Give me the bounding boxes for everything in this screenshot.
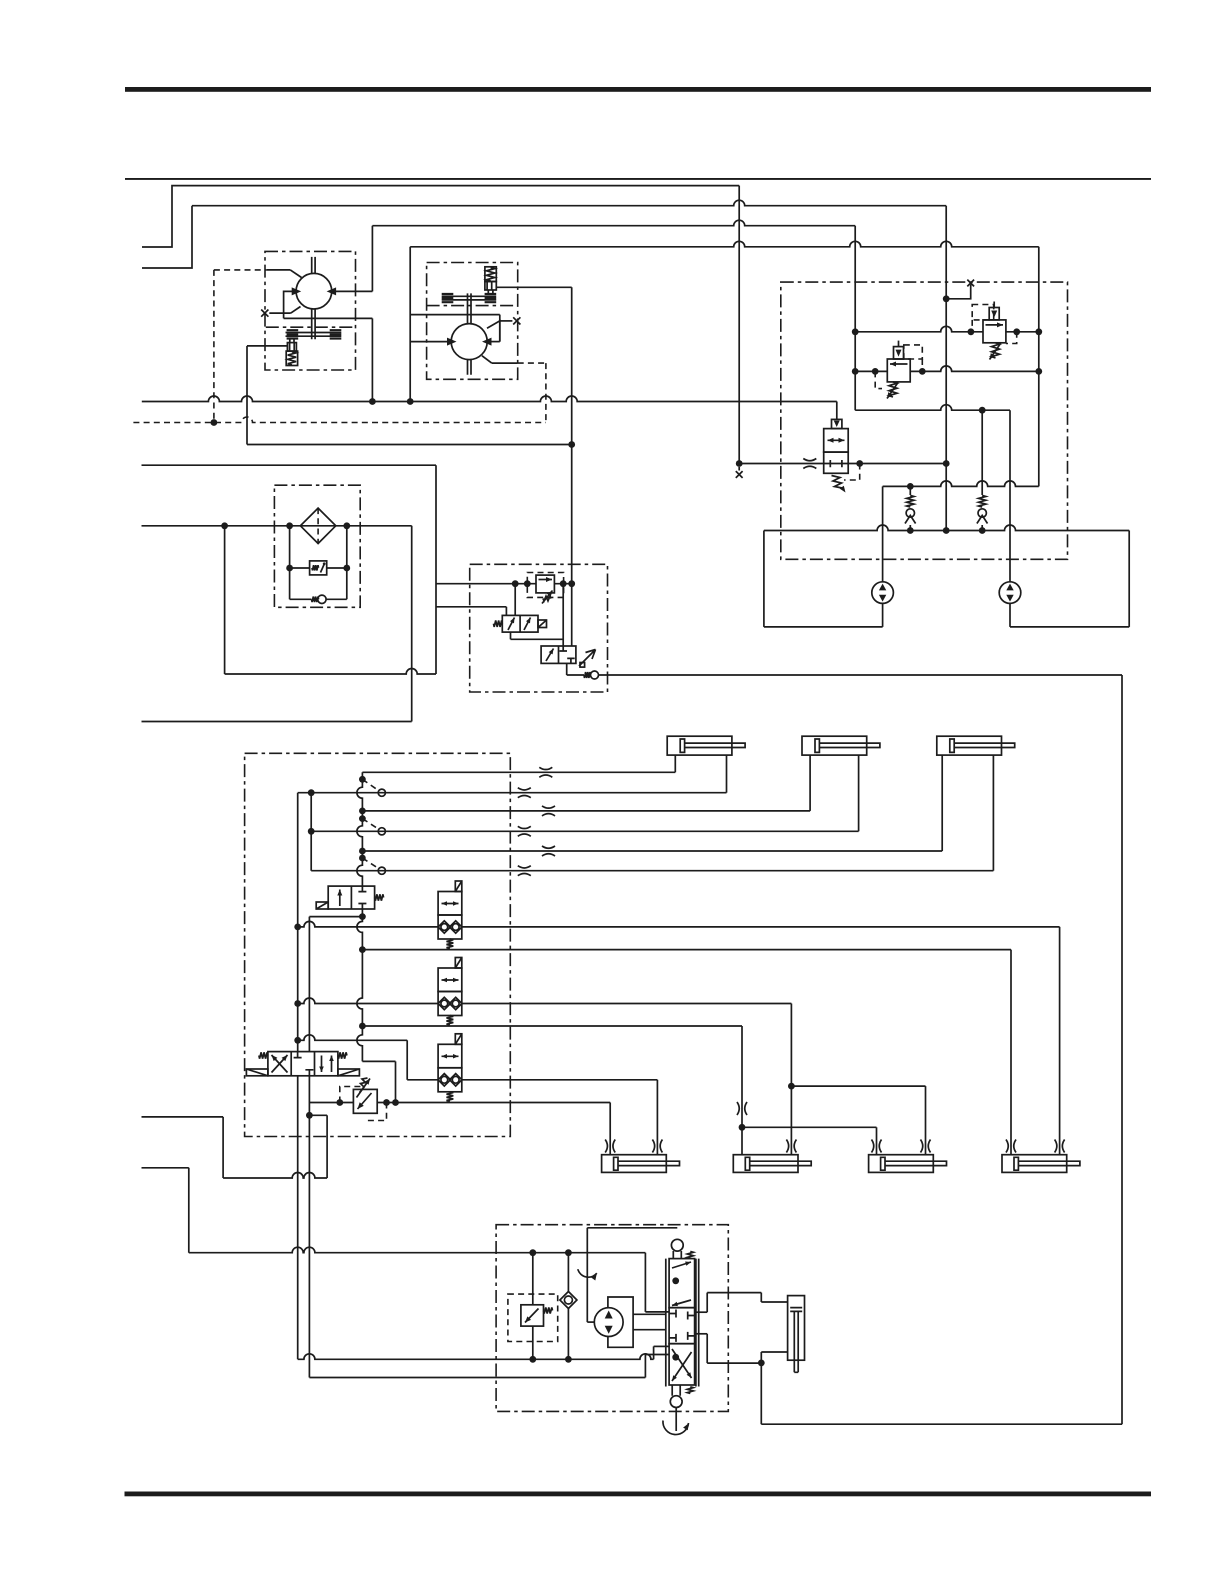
wire motor loop left (763, 531, 765, 627)
filter F1 enclosure (dash-dot) (274, 485, 360, 607)
wire pilot valve feed drop (836, 402, 838, 420)
pump P2 case drain (dashed) (482, 356, 492, 363)
pump P2 compensator link (488, 290, 493, 294)
throttle cyl1 cap (605, 1140, 615, 1153)
relief valve RV2 arrow (986, 324, 1004, 326)
unload valve UV arrows (508, 618, 515, 631)
port relief PR spring adjust (357, 1079, 371, 1098)
steering spool spring top (687, 1252, 693, 1259)
wire P2 discharge (487, 341, 500, 343)
steering relief SR body (521, 1305, 544, 1326)
pump P1 compensator link (290, 339, 294, 342)
relief valve RV1 body (887, 359, 910, 382)
main valve MV center blocked (294, 1052, 314, 1076)
main valve MV spring right (338, 1052, 347, 1058)
node V1 line7 (294, 924, 301, 931)
steering check valve SC (567, 1253, 569, 1360)
wire line C drop right (854, 226, 856, 411)
wire steering supply riser (760, 1363, 762, 1424)
relief valve RV1 spring (889, 382, 897, 397)
unload valve UV body (502, 615, 538, 632)
wire line10 (cyl2 cap) (362, 1025, 742, 1027)
filter F1 element (diamond) (300, 508, 335, 543)
cylinder CYL-3 (869, 1155, 934, 1173)
node line B / pilot-x branch (943, 295, 950, 302)
wire P2 suction arrow line (410, 341, 452, 343)
pump P1 case drain (dashed) (214, 269, 267, 271)
unload valve UV solenoid (538, 620, 547, 628)
throttle cyl4 rod (1055, 1140, 1065, 1153)
wire relief rail upper (855, 326, 983, 332)
wire load-sense link (247, 444, 572, 446)
charge valve CH body lower (824, 452, 849, 473)
charge valve CH arrows (828, 439, 845, 441)
wire cyl-B cap drop (809, 755, 811, 811)
steering relief SR arrow (525, 1309, 539, 1323)
orifice check 1 (dashed feed) (362, 779, 377, 790)
unload valve UV spring (494, 621, 503, 627)
steering wheel knob top (673, 1251, 681, 1259)
wire work rail 2 (V2) (310, 793, 312, 871)
reducing valve RV body (536, 575, 554, 593)
wire tank bus (142, 396, 837, 402)
node riser diag 2 (359, 815, 366, 822)
pump P2 swash plate (442, 296, 497, 300)
throttle cyl-B rod (518, 826, 531, 836)
wire cyl-B rod line (311, 830, 858, 832)
check valve CV2 symbol (975, 495, 990, 525)
pump P2 left port arrow (447, 338, 457, 346)
node P2 on bus (407, 398, 414, 405)
charge valve CH body upper (824, 429, 849, 453)
wire unload valve out (510, 632, 512, 639)
node manifold CV1 (907, 527, 914, 534)
steering spool bottom section (669, 1344, 695, 1385)
wire branch to cyl3 cap (742, 1126, 877, 1128)
steering check symbol (560, 1292, 577, 1309)
plugged pilot port X on block edge (967, 280, 974, 287)
node V1 line9 (294, 1000, 301, 1007)
node riser cyl2-left line (359, 1023, 366, 1030)
wire line11 (298, 1035, 408, 1041)
wire branch at relief (309, 1114, 327, 1116)
node riser branch to V3 (359, 913, 366, 920)
node filter bypass right (343, 522, 350, 529)
node manifold CV2 (979, 527, 986, 534)
wire line B drop (right riser) (945, 206, 947, 531)
pump P2 circle (451, 324, 487, 360)
node P1 on bus (369, 398, 376, 405)
wire feed riser (P line) (357, 772, 363, 886)
cylinder CYL-C (top right) (937, 736, 1002, 755)
wire neutral rail V3 (308, 917, 310, 1052)
reducing valve RV dashed pilot box (527, 573, 563, 598)
pilot check spring and ball (584, 672, 591, 678)
wire pilot-x branch (946, 285, 971, 299)
wire relief PR inlet (309, 1102, 353, 1104)
wire steering line 3 (309, 1377, 645, 1379)
relief valve RV2 spring (992, 343, 1000, 358)
wire P2 compensator out (496, 286, 571, 288)
node cyl2 cap branch (739, 1124, 746, 1131)
node V2 mid (308, 828, 315, 835)
wire filter out drop (411, 526, 413, 722)
main valve MV spring left (259, 1052, 268, 1058)
node case drain junction (211, 419, 218, 426)
wire cyl-A rod line (298, 792, 727, 794)
steering shaft bottom (675, 1408, 677, 1432)
node riser diag 1 (359, 776, 366, 783)
wire cyl-C rod line (311, 870, 993, 872)
node manifold line B (943, 527, 950, 534)
wire filter bypass left leg (289, 526, 291, 600)
wire steering line 1 (189, 1247, 646, 1252)
page top rule (thick) (125, 87, 1151, 92)
check valve CV1 symbol (903, 495, 918, 525)
node V1 line11 (294, 1037, 301, 1044)
wire spool right lower (695, 1333, 708, 1335)
wire tank return bottom (left margin) (142, 721, 412, 723)
node indicator left (286, 565, 293, 572)
lock valve LV3 (cyl1) (438, 1044, 462, 1068)
steering spool spring bottom (687, 1387, 693, 1394)
cylinder CYL-2 (733, 1155, 798, 1173)
throttle cyl-C cap (542, 846, 555, 856)
pilot operated valve PV arrow (546, 649, 554, 662)
wire P1 lower line to bus (284, 317, 373, 319)
node charge outlet on line B (943, 460, 950, 467)
wire motor manifold (764, 525, 1129, 530)
steering cylinder body (788, 1296, 805, 1361)
node relief rail lower left (852, 368, 859, 375)
wire case drain rail (dashed) (133, 417, 546, 423)
lock valve LV1 (cyl4) (438, 892, 462, 916)
wire branch to cyl3 rod (791, 1085, 925, 1087)
wire line2 to valve (653, 1346, 655, 1359)
cylinder CYL-B (top middle) (802, 736, 867, 755)
throttle cyl2 rod (786, 1140, 796, 1153)
control block enclosure (dash-dot) (470, 564, 608, 692)
wire unload valve top feed (514, 584, 516, 616)
node riser cyl-C cap (359, 848, 366, 855)
wire P1 control X line (269, 312, 291, 314)
wire P1 compensator feed (247, 345, 287, 347)
throttle on charge inlet (803, 459, 816, 469)
wire riser elbow to relief (362, 1060, 395, 1062)
port relief PR arrow (358, 1093, 372, 1109)
gerotor metering circle (594, 1308, 623, 1337)
throttle cyl3 rod (921, 1140, 931, 1153)
main valve MV solenoid right (338, 1069, 360, 1076)
steering spool mid section (669, 1308, 695, 1344)
reducing valve RV adjust arrow (542, 591, 553, 604)
port relief PR body (353, 1089, 377, 1113)
reducing valve RV arrow (539, 579, 553, 581)
lock valve LV2 (cyl2) (438, 968, 462, 992)
main valve MV crossed arrows (272, 1055, 288, 1073)
wire relief PR out (377, 1102, 395, 1104)
wire steering upper riser (326, 1115, 328, 1178)
wire steering upper run (223, 1173, 327, 1179)
charge valve CH spring (832, 476, 843, 489)
wire cyl-C rod drop (992, 755, 994, 871)
page bottom rule (thick) (125, 1492, 1152, 1497)
page header rule (thin) (125, 178, 1151, 180)
pump P1 swash plate (286, 333, 342, 337)
steering relief SR out (532, 1326, 534, 1359)
wire P1 compensator drop (246, 346, 248, 445)
pump P1 right port arrow (327, 287, 337, 295)
pump P2 compensator spring box (485, 267, 496, 282)
travel motor M2 (right) (999, 582, 1021, 604)
wire cyl-B rod drop (858, 755, 860, 831)
wire line13 (cyl1 cap) (396, 1102, 611, 1104)
node spool top (672, 1277, 679, 1284)
wire steer cylinder bottom port (761, 1351, 787, 1353)
node V2 top (308, 789, 315, 796)
wire line1 to valve (644, 1253, 646, 1312)
wire port B step (left margin) (142, 206, 192, 268)
wire port A drop to pilot-valve inlet (738, 186, 740, 467)
wire line9 (cyl2 rod) (298, 998, 438, 1004)
wire port A down (297, 1076, 299, 1360)
wire line C drop to right motor (1009, 410, 1011, 582)
steering spool rails (666, 1259, 699, 1387)
main block enclosure (dash-dot) (245, 753, 511, 1136)
filter bypass check valve (290, 598, 312, 600)
wire cyl-A rod drop (726, 755, 728, 793)
wire steering port upper (left margin) (142, 1116, 224, 1118)
node riser cyl4-left line (359, 946, 366, 953)
wire filter bypass right leg (346, 526, 348, 600)
wire cyl-A cap line (362, 771, 675, 773)
node A junction on pilot inlet line (736, 460, 743, 467)
clogging indicator box (290, 567, 310, 569)
wire line8 (cyl4 cap) (362, 949, 1011, 951)
wire LS line into block (436, 583, 536, 585)
node PR out 2 (392, 1099, 399, 1106)
wire cyl4 cap drop (1010, 950, 1012, 1155)
gerotor rotation arrow (578, 1269, 597, 1277)
steering relief SR feed (532, 1253, 534, 1305)
steering rotation arrow bottom (663, 1421, 689, 1435)
node LS branch 2 (560, 580, 567, 587)
node filter bypass left (286, 522, 293, 529)
orifice check 3 (dashed feed) (362, 858, 377, 868)
wire gerotor links (633, 1313, 666, 1315)
wire P2 discharge riser (409, 247, 411, 402)
wire line B top run (192, 200, 946, 205)
pump P2 inner section line (dash-dot) (427, 305, 518, 307)
wire cyl2 cap drop (741, 1026, 743, 1155)
node LS dashed-box edge (524, 580, 531, 587)
node riser diag 3 (359, 855, 366, 862)
wire port B down (308, 1076, 310, 1378)
wire compensator drop to control block (571, 287, 573, 583)
wire charge valve inlet (739, 463, 824, 465)
node line1 check branch (565, 1249, 572, 1256)
main valve MV body (268, 1052, 338, 1076)
pump P1 top-left port (267, 269, 291, 271)
wire P2 control X line (500, 320, 513, 322)
throttle cyl1 rod (652, 1140, 662, 1153)
wire LS line out of RV (554, 583, 571, 585)
wire riser lower (357, 917, 363, 1062)
relief valve RV2 pilot box (dashed) (972, 305, 994, 320)
wire second stage feed B (571, 584, 573, 646)
pump P1 left port arrow (292, 287, 302, 295)
node RV1 on line D (1035, 368, 1042, 375)
node filter drain branch (221, 522, 228, 529)
node PR out 1 (383, 1099, 390, 1106)
steering wheel knob bottom (672, 1385, 680, 1396)
pilot operated valve PV body (541, 646, 576, 663)
pump P1 circle (296, 273, 332, 309)
pump P2 right port arrow (482, 338, 492, 346)
node CV1 top (907, 483, 914, 490)
relief valve RV2 body (983, 320, 1006, 343)
node steer cylinder junction (758, 1360, 765, 1367)
pilot operated valve PV lever (579, 650, 596, 667)
wire steering line 2 (298, 1354, 654, 1359)
orifice check 2 (dashed feed) (362, 819, 377, 829)
steering relief SR pilot box (dashed) (508, 1294, 558, 1341)
wire long line to steering (right) (599, 674, 1123, 676)
node spool bottom (672, 1354, 679, 1361)
wire line C lower run (855, 405, 1010, 410)
node relief2 left (968, 328, 975, 335)
cylinder CYL-1 (602, 1155, 667, 1173)
node RV2 out (1013, 328, 1020, 335)
gerotor loop top (587, 1227, 677, 1229)
pump P2 enclosure (dash-dot) (427, 263, 518, 380)
wire line D drop right (1038, 247, 1040, 487)
pump P1 compensator spring box (286, 351, 297, 365)
plugged port X below node A (736, 471, 743, 478)
wire relief rail lower (855, 370, 887, 372)
throttle cyl-B cap (542, 806, 555, 816)
wire second stage feed A (562, 584, 564, 646)
wire cyl4 rod drop (1059, 927, 1061, 1155)
throttle cyl-C rod (518, 866, 531, 876)
bypass valve BV spring (375, 894, 384, 900)
node line1 relief branch (529, 1249, 536, 1256)
throttle cyl-A rod (518, 788, 531, 798)
wire return drop (435, 465, 437, 674)
throttle cyl2 cap (737, 1102, 747, 1115)
node cyl2 rod branch (788, 1083, 795, 1090)
travel block enclosure (dash-dot) (781, 282, 1068, 559)
wire cyl2 rod drop (790, 1004, 792, 1155)
wire cyl1 rod drop (656, 1080, 658, 1155)
relief valve RV1 arrow (890, 363, 908, 365)
wire spool right upper (695, 1311, 708, 1313)
steering relief SR spring (544, 1308, 553, 1314)
wire P1 suction trapezoid (284, 291, 297, 318)
wire branch to V3 (309, 916, 362, 918)
node charge outlet pilot (856, 460, 863, 467)
wire charge valve outlet (848, 463, 946, 465)
node line2 relief branch (529, 1356, 536, 1363)
wire line D lower run (883, 481, 1039, 487)
relief valve RV1 pilot cap (894, 347, 904, 359)
node PR pilot left (336, 1099, 343, 1106)
wire cyl-C cap line (362, 850, 942, 852)
pump P2 drive shaft (468, 293, 472, 374)
travel motor M1 (left) (872, 582, 894, 604)
steering cylinder piston and rod (790, 1308, 802, 1373)
wire PV outlet (566, 663, 568, 675)
steering unit enclosure (dash-dot) (496, 1225, 728, 1412)
pump P1 enclosure (dash-dot) (265, 251, 356, 370)
pump P1 inner section line (dash-dot) (266, 326, 353, 328)
bypass valve BV solenoid (316, 902, 328, 909)
wire cyl-A cap drop (674, 755, 676, 772)
steering spool top section (669, 1259, 695, 1308)
wire P1 drop to bus (371, 318, 373, 401)
wire P1 discharge (332, 290, 373, 292)
relief valve RV2 pilot cap (989, 308, 999, 320)
node riser cyl-B cap (359, 808, 366, 815)
node RV1 in (872, 368, 879, 375)
node line2 check branch (565, 1356, 572, 1363)
check valve CV1 (909, 486, 911, 530)
wire port A step (left margin) (142, 186, 739, 247)
plugged port X pump P2 (513, 317, 520, 324)
bypass valve BV flow arrow (339, 890, 341, 907)
check valve CV2 (981, 410, 983, 530)
wire filter drain drop (224, 526, 226, 674)
wire motor loop right (1128, 531, 1130, 627)
bypass valve BV body (328, 886, 374, 909)
charge valve CH pilot cap (832, 419, 842, 428)
pump P1 drive shaft (312, 257, 315, 339)
throttle cyl4 cap (1006, 1140, 1016, 1153)
plugged port X pump P1 (261, 310, 268, 317)
wire steering supply bottom run (761, 1423, 1122, 1425)
pilot operated valve PV blocked port (560, 646, 575, 663)
wire line12 (cyl1 rod) (407, 1079, 438, 1081)
wire line C run (P1 discharge top) (372, 220, 855, 225)
pump P2 compensator piston (485, 282, 496, 291)
node LS at compensator drop (568, 580, 575, 587)
wire steering supply drop (far right) (1121, 675, 1123, 1424)
wire line D top run (P2 discharge) (410, 241, 1039, 246)
wire cyl-C cap drop (941, 755, 943, 851)
wire work rail 1 (V1) (297, 793, 299, 1052)
wire return line upper (left margin) (142, 464, 437, 466)
main valve MV parallel arrows (321, 1056, 323, 1073)
wire steering port lower (left margin) (142, 1167, 189, 1169)
wire filter line (left margin) (142, 525, 412, 527)
node RV2 on line D (1035, 328, 1042, 335)
wire relief rail upper right (1006, 331, 1039, 333)
cylinder CYL-4 (1002, 1155, 1067, 1173)
main valve MV solenoid left (246, 1069, 268, 1076)
wire riser below BV (361, 909, 363, 917)
wire P2 control trapezoid (487, 321, 500, 342)
wire line7 (cyl4 rod) (298, 921, 438, 927)
wire filter drain run (225, 669, 436, 675)
throttle cyl3 cap (872, 1140, 882, 1153)
pump P1 compensator piston (287, 343, 296, 352)
node RV1 out (919, 368, 926, 375)
wire line11 drop (406, 1040, 408, 1080)
node branch at relief (306, 1112, 313, 1119)
wire cyl1 cap drop (609, 1103, 611, 1155)
bypass valve BV blocked (358, 886, 366, 909)
node LS branch 1 (512, 580, 519, 587)
